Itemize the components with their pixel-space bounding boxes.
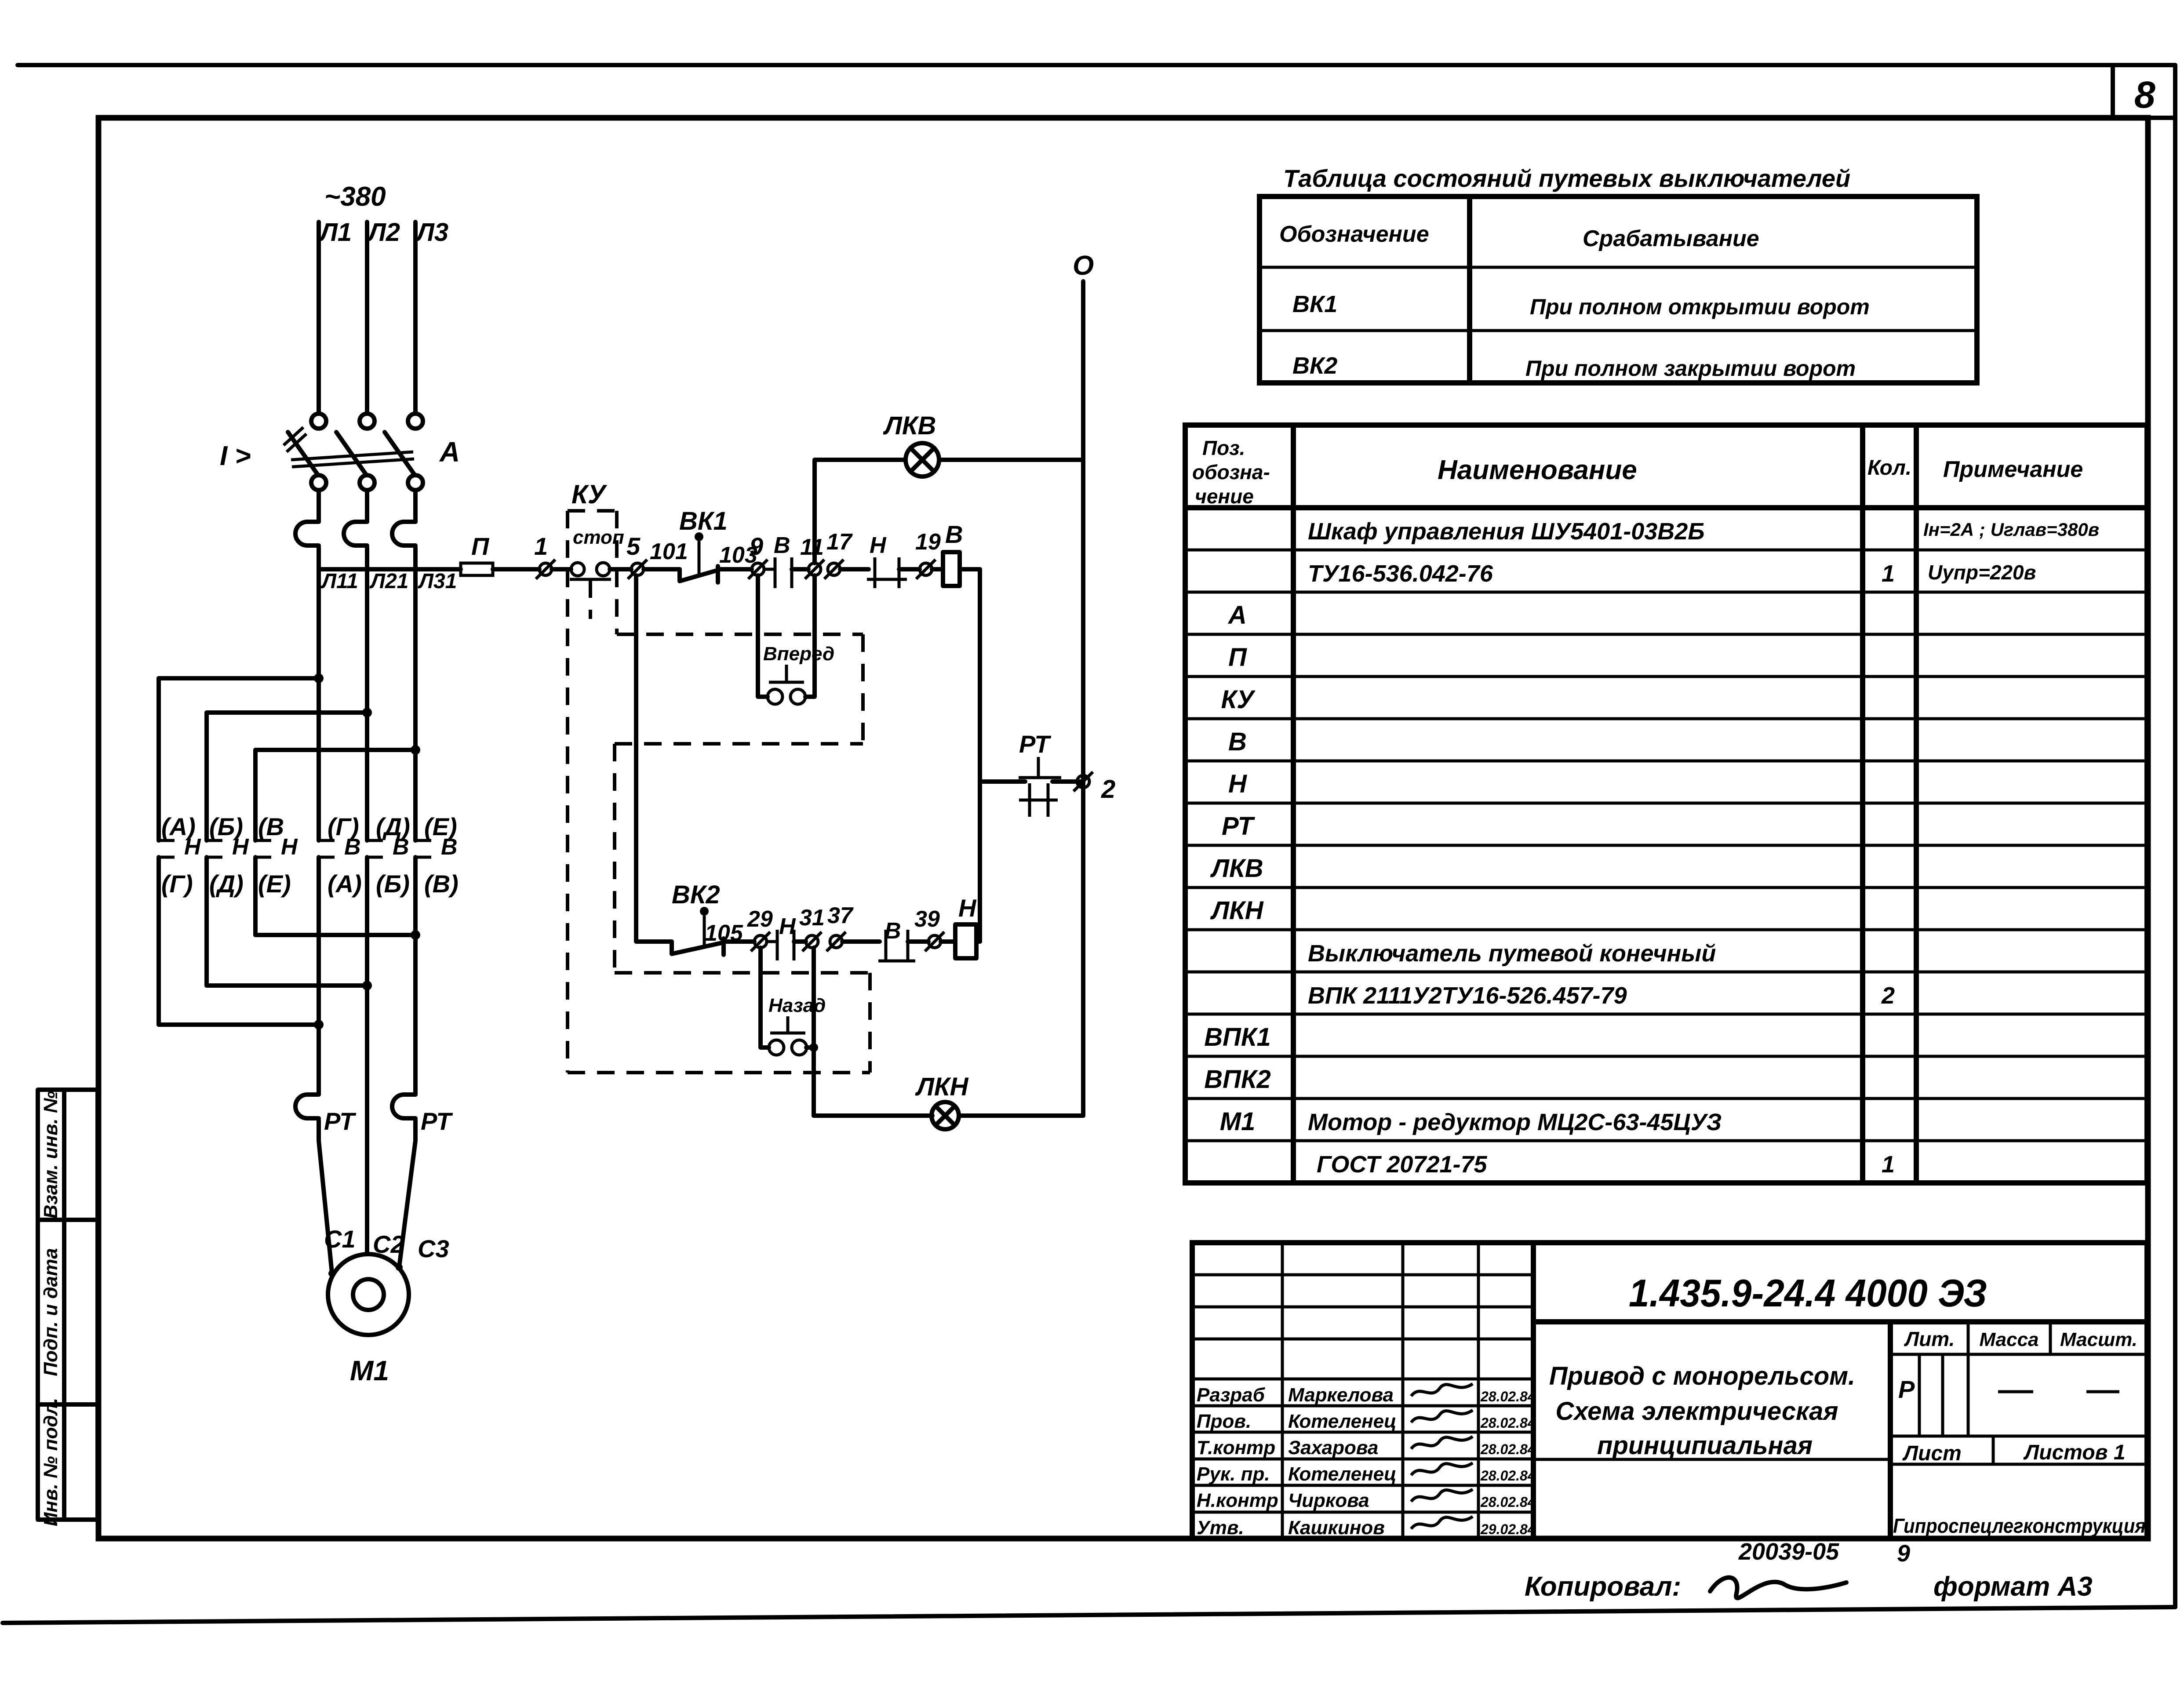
node top link B junction (362, 708, 372, 717)
wire crossover column1 lower (157, 857, 161, 1025)
svg-text:Примечание: Примечание (1943, 457, 2083, 482)
svg-text:КУ: КУ (571, 480, 608, 509)
sheet number box (2113, 65, 2175, 118)
wire crossover bottom link 1 (159, 1022, 319, 1027)
svg-text:(В: (В (258, 813, 284, 840)
signature row Т.контр (1197, 1437, 1536, 1459)
states table frame (1259, 196, 1977, 383)
svg-text:Схема электрическая: Схема электрическая (1555, 1397, 1838, 1426)
svg-text:ЛКВ: ЛКВ (1210, 854, 1263, 883)
svg-text:Захарова: Захарова (1288, 1437, 1378, 1459)
circuit breaker A pole 3 blade (385, 432, 415, 475)
wire crossover column3 lower (253, 857, 258, 935)
svg-text:РТ: РТ (324, 1107, 357, 1135)
wire crossover top link V (255, 748, 415, 752)
massa dash (1998, 1390, 2033, 1393)
svg-text:ВК1: ВК1 (679, 507, 728, 535)
svg-text:П: П (1228, 643, 1247, 672)
svg-text:формат А3: формат А3 (1933, 1571, 2093, 1602)
svg-text:39: 39 (914, 906, 940, 932)
svg-text:Мотор - редуктор МЦ2С-63-45Ц: Мотор - редуктор МЦ2С-63-45ЦУЗ (1308, 1109, 1722, 1135)
wire terminal 11 to Vpered button (805, 575, 815, 697)
svg-text:Шкаф управления ШУ5401-03В2Б: Шкаф управления ШУ5401-03В2Б (1308, 518, 1705, 545)
svg-text:Л2: Л2 (367, 218, 400, 247)
wire fuse to terminal 1 (493, 567, 539, 571)
svg-text:28.02.84: 28.02.84 (1480, 1415, 1536, 1431)
svg-text:Маркелова: Маркелова (1288, 1384, 1394, 1406)
wire phase1 column lower (317, 857, 321, 1095)
svg-text:При полном закрытии ворот: При полном закрытии ворот (1525, 356, 1856, 381)
wire phase3 column upper (413, 547, 418, 840)
svg-text:29: 29 (747, 906, 773, 932)
terminal 31 (802, 932, 822, 951)
terminal 39 (925, 932, 944, 951)
wire riser to RT contact (980, 779, 1025, 784)
svg-text:Н: Н (958, 894, 977, 922)
svg-text:Чиркова: Чиркова (1288, 1490, 1369, 1511)
svg-text:Котеленец: Котеленец (1288, 1411, 1397, 1432)
KU enclosure dashed left side (566, 511, 569, 1073)
wire phase2 column upper (365, 547, 369, 840)
svg-text:2: 2 (1881, 982, 1895, 1009)
limit switch VK1 plunger (695, 532, 703, 574)
KU enclosure dashed right upper (615, 511, 619, 634)
wire crossover column1 upper (157, 678, 161, 840)
svg-text:28.02.84: 28.02.84 (1480, 1389, 1536, 1404)
masshtab dash (2086, 1390, 2119, 1393)
breaker release element pole 1 (295, 522, 319, 546)
svg-text:Вперед: Вперед (763, 643, 834, 665)
svg-text:ЛКВ: ЛКВ (883, 411, 936, 440)
wire terminal 29 to Nazad button (761, 948, 769, 1048)
node motor terminal C1 (328, 1270, 335, 1277)
wire coil V to right riser (960, 567, 980, 571)
wire phase3 heater to motor (399, 1120, 415, 1267)
wire VK1 to terminal 9 (718, 567, 752, 571)
svg-text:Р: Р (1898, 1375, 1915, 1403)
svg-text:Кашкинов: Кашкинов (1288, 1517, 1385, 1539)
svg-text:Котеленец: Котеленец (1288, 1463, 1397, 1485)
contactor N NO contact in row2 (767, 930, 794, 960)
thermal relay heater RT on phase at x=945 (392, 1095, 415, 1118)
svg-text:В: В (441, 834, 458, 860)
signature row Утв. (1197, 1517, 1536, 1539)
svg-text:М1: М1 (1220, 1107, 1256, 1136)
svg-text:ВК2: ВК2 (1292, 353, 1337, 379)
sheet outer top border line (18, 63, 2175, 67)
svg-text:Пров.: Пров. (1197, 1411, 1251, 1432)
svg-text:Т.контр: Т.контр (1197, 1437, 1275, 1459)
limit switch VK2 contact (672, 938, 724, 955)
wire N contact to terminal 19 (899, 567, 920, 571)
svg-text:28.02.84: 28.02.84 (1480, 1441, 1536, 1457)
wire terminal 31 riser through Nazad (812, 948, 816, 1116)
svg-text:А: А (1227, 601, 1247, 629)
svg-text:П: П (471, 532, 490, 560)
svg-text:В: В (945, 520, 963, 548)
node Nazad riser junction (809, 1043, 818, 1052)
svg-text:Разраб: Разраб (1197, 1384, 1266, 1406)
svg-text:Кол.: Кол. (1867, 456, 1911, 480)
svg-text:I >: I > (220, 441, 251, 471)
contactor contact column 5 (367, 840, 383, 857)
circuit breaker A pole 1 lower terminal (311, 475, 326, 490)
wire VK2 to terminal 29 (724, 939, 754, 944)
Vpered box dashed right (861, 634, 865, 744)
wire terminal 1 to stop button (552, 567, 571, 571)
wire lamp LKV left (815, 458, 906, 462)
contactor coil N (955, 924, 976, 958)
wire phase L1 lead (317, 222, 321, 414)
contactor coil V (943, 552, 960, 586)
svg-text:С1: С1 (324, 1225, 356, 1253)
stop button stem (589, 580, 592, 619)
limit switch VK2 plunger (700, 907, 709, 945)
wire V contact to terminal 11 (792, 567, 808, 571)
circuit breaker A pole 1 blade (288, 432, 318, 475)
terminal 19 (916, 560, 935, 579)
circuit breaker A pole 1 upper terminal (311, 414, 326, 429)
signature row Разраб (1197, 1384, 1536, 1406)
wire stop button to terminal 5 (610, 567, 631, 571)
terminal 11 (805, 560, 824, 579)
motor M1 (328, 1254, 409, 1335)
wire crossover bottom link 2 (207, 983, 367, 988)
wire coil N to right riser (941, 939, 955, 944)
wire crossover column3 upper (253, 750, 258, 840)
svg-text:Назад: Назад (768, 995, 826, 1016)
svg-text:Л1: Л1 (318, 218, 352, 247)
terminal 5 (628, 560, 647, 579)
svg-text:РТ: РТ (421, 1107, 453, 1135)
svg-text:РТ: РТ (1019, 730, 1052, 758)
svg-text:37: 37 (827, 903, 854, 928)
Vpered box dashed bottom (615, 742, 863, 746)
svg-text:11: 11 (800, 535, 824, 560)
wire crossover bottom link 3 (255, 933, 415, 937)
wire crossover top link A (159, 676, 319, 680)
wire terminal 9 to Vpered button (758, 575, 768, 697)
svg-text:Л21: Л21 (369, 570, 408, 593)
svg-text:В: В (1228, 728, 1247, 756)
svg-text:Листов 1: Листов 1 (2023, 1441, 2125, 1464)
wire crossover column2 lower (204, 857, 209, 986)
wire crossover top link B (207, 710, 367, 715)
wire breaker pole 2 to release element (365, 490, 369, 522)
title block frame (1192, 1243, 2147, 1539)
lamp LKN (932, 1102, 959, 1129)
svg-text:Масса: Масса (1979, 1329, 2038, 1350)
button Nazad contacts (769, 1016, 807, 1055)
terminal 1 (536, 560, 555, 579)
svg-text:8: 8 (2134, 74, 2155, 116)
svg-text:Лист: Лист (1902, 1442, 1962, 1465)
components table frame (1185, 425, 2147, 1183)
wire RT contact to bus O (1052, 779, 1083, 784)
neutral bus O (1081, 281, 1085, 1116)
signature row Н.контр (1197, 1489, 1536, 1511)
svg-text:РТ: РТ (1222, 812, 1255, 840)
svg-text:(Г): (Г) (161, 870, 193, 898)
svg-text:28.02.84: 28.02.84 (1480, 1468, 1536, 1484)
circuit breaker A pole 2 lower terminal (360, 475, 375, 490)
svg-text:1.435.9-24.4 4000 ЭЗ: 1.435.9-24.4 4000 ЭЗ (1629, 1271, 1987, 1315)
fuse P (461, 563, 493, 575)
svg-text:Взам. инв. №: Взам. инв. № (40, 1091, 62, 1219)
svg-text:(Б): (Б) (376, 870, 410, 898)
svg-text:В: В (885, 918, 901, 944)
thermal relay RT contact (1019, 757, 1061, 817)
wire terminal 5 to VK1 (644, 567, 680, 571)
breaker release element pole 2 (344, 522, 367, 546)
wire right riser (978, 569, 982, 942)
wire lamp LKN to bus O (959, 1113, 1083, 1118)
wire terminal 19 to coil V (932, 567, 943, 571)
svg-text:ВК2: ВК2 (672, 880, 720, 909)
KU enclosure dashed top (568, 509, 617, 513)
wire terminal 37 to V contact (842, 939, 880, 944)
wire V contact to terminal 39 (908, 939, 928, 944)
svg-text:В: В (393, 834, 409, 860)
svg-text:Утв.: Утв. (1197, 1517, 1244, 1539)
svg-text:(Е): (Е) (258, 870, 291, 898)
svg-text:Uупр=220в: Uупр=220в (1928, 561, 2036, 584)
svg-text:Таблица состояний путевых выкл: Таблица состояний путевых выключателей (1283, 164, 1850, 192)
svg-text:ГОСТ 20721-75: ГОСТ 20721-75 (1317, 1151, 1488, 1178)
svg-text:Н: Н (232, 834, 249, 860)
node bottom link 2 junction (362, 981, 372, 990)
contactor V NC contact in row2 (878, 930, 915, 961)
wire breaker pole 3 to release element (413, 490, 418, 522)
svg-text:Н.контр: Н.контр (1197, 1490, 1278, 1511)
svg-text:Масшт.: Масшт. (2060, 1329, 2137, 1350)
wire lamp LKV to bus O (939, 458, 1083, 462)
svg-text:ТУ16-536.042-76: ТУ16-536.042-76 (1308, 560, 1493, 587)
wire crossover column2 upper (204, 713, 209, 840)
circuit breaker A pole 2 blade (336, 432, 366, 475)
sheet outer right border line (2173, 65, 2177, 1607)
contactor contact column 4 (319, 840, 335, 857)
wire breaker pole 1 to release element (317, 490, 321, 522)
svg-text:Обозначение: Обозначение (1279, 222, 1429, 247)
svg-text:Л31: Л31 (418, 570, 457, 593)
svg-text:ЛКН: ЛКН (1210, 896, 1264, 925)
terminal 29 (751, 932, 770, 951)
circuit breaker A pole 3 upper terminal (408, 414, 423, 429)
svg-text:Н: Н (281, 834, 298, 860)
svg-text:5: 5 (626, 532, 641, 560)
node motor terminal C3 (396, 1264, 403, 1271)
svg-text:9: 9 (1897, 1540, 1910, 1567)
svg-text:29.02.84: 29.02.84 (1480, 1521, 1536, 1537)
svg-text:Поз.: Поз. (1202, 437, 1245, 459)
svg-text:17: 17 (826, 529, 853, 555)
button Vpered contacts (768, 665, 805, 704)
svg-text:Н: Н (870, 533, 887, 558)
svg-text:КУ: КУ (1221, 685, 1256, 714)
svg-text:(Д): (Д) (209, 870, 244, 898)
svg-text:Iн=2А ; Uглав=380в: Iн=2А ; Uглав=380в (1923, 519, 2099, 540)
contactor V NO contact in row1 (764, 557, 792, 588)
wire phase1 heater to motor (319, 1120, 332, 1273)
svg-text:ВК1: ВК1 (1292, 291, 1337, 317)
Nazad box dashed right (868, 973, 872, 1073)
svg-text:~380: ~380 (324, 182, 386, 212)
svg-text:ВПК 2111У2ТУ16-526.457-79: ВПК 2111У2ТУ16-526.457-79 (1308, 982, 1627, 1009)
signature row Пров. (1197, 1410, 1536, 1432)
svg-text:9: 9 (750, 532, 763, 560)
svg-text:(В): (В) (424, 870, 459, 898)
svg-text:А: А (439, 436, 460, 468)
svg-text:С3: С3 (418, 1235, 449, 1262)
KU enclosure dashed bottom (568, 1071, 870, 1074)
sheet outer bottom border line (3, 1607, 2175, 1623)
kopiroval signature (1710, 1578, 1846, 1598)
left margin stamp strip (38, 1090, 98, 1520)
node top link V junction (411, 745, 420, 755)
svg-text:28.02.84: 28.02.84 (1480, 1494, 1536, 1510)
drawing frame (98, 118, 2148, 1539)
svg-text:Подп. и дата: Подп. и дата (40, 1248, 62, 1376)
wire phase1 column upper (317, 547, 321, 840)
svg-text:В: В (344, 834, 361, 860)
circuit breaker A release stroke marks (284, 427, 306, 452)
svg-text:Н: Н (779, 914, 796, 939)
terminal 9 (748, 560, 768, 579)
svg-text:2: 2 (1101, 775, 1115, 804)
wire Nazad riser to lamp LKN (814, 1113, 932, 1118)
svg-text:М1: М1 (350, 1355, 389, 1386)
svg-text:31: 31 (799, 905, 825, 931)
wire phase3 column lower (413, 857, 418, 1095)
node bottom link 1 junction (314, 1020, 324, 1029)
dashed link Vpered to Nazad box (613, 744, 616, 973)
terminal 2 on bus (1074, 772, 1093, 791)
svg-text:101: 101 (650, 539, 688, 564)
contactor contact column 6 (415, 840, 431, 857)
svg-text:О: О (1073, 251, 1094, 281)
svg-text:Копировал:: Копировал: (1525, 1571, 1681, 1602)
svg-text:Выключатель путевой конечный: Выключатель путевой конечный (1308, 940, 1716, 967)
wire terminal 17 to N contact (840, 567, 869, 571)
svg-text:принципиальная: принципиальная (1597, 1431, 1813, 1460)
svg-text:Срабатывание: Срабатывание (1583, 226, 1759, 251)
stop button contacts (570, 563, 611, 579)
svg-text:1: 1 (1882, 560, 1895, 587)
wire N contact to terminal 31 (794, 939, 806, 944)
svg-text:Н: Н (184, 834, 201, 860)
limit switch VK1 contact (680, 566, 718, 582)
terminal 37 (826, 932, 846, 951)
node top link A junction (314, 673, 324, 683)
svg-text:Наименование: Наименование (1438, 455, 1637, 485)
wire control feed from phase lines (319, 567, 461, 571)
svg-text:Инв. № подл.: Инв. № подл. (40, 1398, 62, 1526)
svg-text:Рук. пр.: Рук. пр. (1197, 1463, 1270, 1485)
breaker release element pole 3 (392, 522, 415, 546)
contactor contact column 2 (207, 840, 222, 857)
contactor contact column 1 (159, 840, 175, 857)
Nazad box dashed top (615, 971, 870, 975)
node bottom link 3 junction (411, 930, 420, 940)
circuit breaker A linkage bar (291, 452, 414, 467)
svg-text:(А): (А) (328, 870, 362, 898)
Vpered box dashed top (617, 633, 863, 636)
svg-text:В: В (774, 533, 790, 558)
wire phase2 column lower (365, 857, 369, 1254)
thermal relay heater RT on phase at x=725 (295, 1095, 319, 1118)
svg-text:При полном открытии ворот: При полном открытии ворот (1530, 295, 1870, 319)
contactor N NC contact in row1 (867, 557, 907, 588)
terminal 17 (824, 560, 844, 579)
svg-text:Л3: Л3 (415, 218, 448, 247)
svg-text:ЛКН: ЛКН (915, 1073, 969, 1101)
svg-text:Гипроспецлегконструкция: Гипроспецлегконструкция (1893, 1514, 2146, 1537)
wire phase L2 lead (365, 222, 369, 414)
wire Nazad right contact stub (806, 1045, 814, 1050)
circuit breaker A pole 3 lower terminal (408, 475, 423, 490)
lamp LKV (906, 443, 939, 477)
circuit breaker A pole 2 upper terminal (360, 414, 375, 429)
svg-text:1: 1 (1882, 1151, 1895, 1178)
svg-text:19: 19 (915, 529, 941, 555)
svg-text:1: 1 (534, 532, 548, 560)
wire terminal 5 down riser (636, 575, 672, 942)
svg-text:Привод с монорельсом.: Привод с монорельсом. (1549, 1362, 1855, 1390)
svg-text:Л11: Л11 (320, 570, 358, 593)
signature row Рук. пр. (1197, 1463, 1536, 1485)
svg-text:20039-05: 20039-05 (1738, 1539, 1839, 1565)
wire terminal 11 riser to lamp LKV (812, 460, 817, 563)
svg-text:ВПК2: ВПК2 (1204, 1065, 1271, 1094)
svg-text:обозна-: обозна- (1192, 461, 1270, 484)
svg-text:ВПК1: ВПК1 (1204, 1023, 1271, 1051)
wire phase L3 lead (413, 222, 418, 414)
wire coil N output (976, 939, 980, 944)
svg-text:Н: Н (1228, 770, 1247, 798)
contactor contact column 3 (255, 840, 271, 857)
svg-text:Лит.: Лит. (1904, 1328, 1955, 1350)
svg-text:чение: чение (1195, 485, 1254, 508)
